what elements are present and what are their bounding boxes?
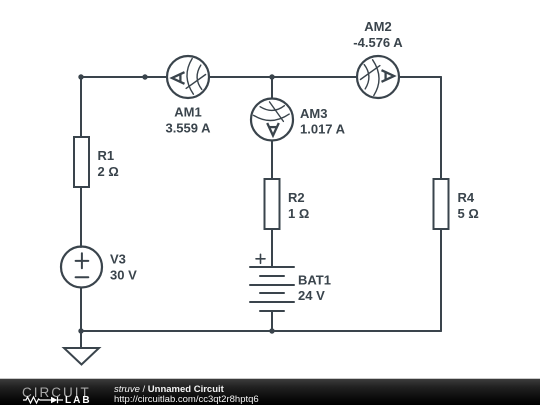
- resistor R1: [74, 137, 89, 187]
- label R2 value: [288, 206, 309, 221]
- wire from AM2 to top-right corner: [399, 76, 441, 78]
- wire from AM1 to AM2: [209, 76, 357, 78]
- svg-text:V3: V3: [110, 252, 126, 267]
- ground: [64, 348, 99, 365]
- footer title line: [114, 384, 224, 395]
- wire from BAT1 to bottom rail: [271, 311, 273, 331]
- label BAT1 plus polarity: [256, 254, 265, 263]
- wire from AM3 to R2: [271, 141, 273, 180]
- wire left rail from node A to R1: [80, 77, 82, 137]
- svg-text:24 V: 24 V: [298, 288, 325, 303]
- label R2 name: [288, 190, 305, 205]
- ammeter AM2: [357, 56, 399, 98]
- footer black bar: [0, 379, 540, 405]
- battery BAT1: [250, 267, 294, 311]
- footer separator line: [0, 378, 540, 379]
- wire top-left horizontal from node A to AM1: [81, 76, 167, 78]
- wire from R4 to bottom-right corner: [440, 229, 442, 331]
- label V3 name: [110, 252, 126, 267]
- voltage source V3: [61, 247, 102, 288]
- ammeter AM3: [251, 99, 293, 141]
- svg-text:2 Ω: 2 Ω: [98, 164, 119, 179]
- svg-text:BAT1: BAT1: [298, 273, 331, 288]
- footer url line: [114, 394, 259, 405]
- label AM1 name: [174, 105, 201, 120]
- label R1 value: [98, 164, 119, 179]
- svg-text:30 V: 30 V: [110, 268, 137, 283]
- ammeter AM1: [167, 56, 209, 98]
- wire AM3 branch from node C down: [271, 77, 273, 99]
- label BAT1 value: [298, 288, 325, 303]
- svg-text:3.559 A: 3.559 A: [165, 121, 211, 136]
- resistor R2: [265, 179, 280, 229]
- svg-text:R4: R4: [458, 190, 475, 205]
- label V3 value: [110, 268, 137, 283]
- svg-text:R2: R2: [288, 190, 305, 205]
- wire from V3 to node E: [80, 288, 82, 332]
- node A junction dot at top-left corner: [78, 74, 83, 79]
- label R1 name: [98, 148, 115, 163]
- logo LAB text: [65, 395, 92, 405]
- logo resistor-diode zigzag: [20, 395, 70, 405]
- wire right rail down to R4: [440, 77, 442, 179]
- wire from node E to ground: [80, 331, 82, 348]
- label AM3 name: [300, 106, 327, 121]
- node B junction dot on top wire: [142, 74, 147, 79]
- wire bottom rail: [81, 330, 441, 332]
- wire from R1 to V3: [80, 187, 82, 247]
- label AM1 value: [165, 121, 211, 136]
- svg-text:1.017 A: 1.017 A: [300, 122, 346, 137]
- wire from R2 to BAT1: [271, 229, 273, 267]
- label BAT1 name: [298, 273, 331, 288]
- logo CIRCUIT text: [22, 385, 91, 400]
- svg-text:5 Ω: 5 Ω: [458, 206, 479, 221]
- node E junction dot bottom-left: [78, 328, 83, 333]
- label AM2 name: [364, 19, 391, 34]
- svg-text:AM3: AM3: [300, 106, 327, 121]
- svg-text:1 Ω: 1 Ω: [288, 206, 309, 221]
- svg-text:AM2: AM2: [364, 19, 391, 34]
- label AM3 value: [300, 122, 346, 137]
- svg-text:AM1: AM1: [174, 105, 201, 120]
- label R4 value: [458, 206, 479, 221]
- resistor R4: [434, 179, 449, 229]
- node C junction dot for AM3 branch: [269, 74, 274, 79]
- svg-text:R1: R1: [98, 148, 115, 163]
- label AM2 value: [353, 35, 403, 50]
- label R4 name: [458, 190, 475, 205]
- svg-text:-4.576 A: -4.576 A: [353, 35, 403, 50]
- node D junction dot bottom middle: [269, 328, 274, 333]
